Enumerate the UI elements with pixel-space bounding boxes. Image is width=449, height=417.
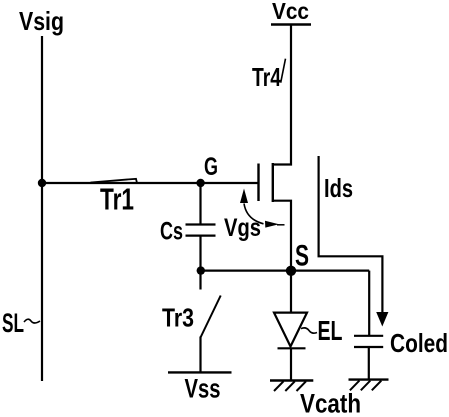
svg-text:Coled: Coled bbox=[390, 328, 448, 358]
arrow Vgs tip line bbox=[277, 224, 285, 226]
wire Ids measurement path bbox=[319, 156, 383, 313]
svg-text:Vgs: Vgs bbox=[224, 214, 261, 242]
wire S row to Coled bbox=[368, 271, 370, 336]
wire Coled bottom to ground bbox=[368, 347, 370, 379]
lead squiggle from SL to line bbox=[24, 319, 40, 323]
node junction at Vsig and gate wire bbox=[38, 179, 46, 187]
ground under Coled bar bbox=[349, 378, 389, 380]
wire G node down to Cs bbox=[199, 183, 201, 224]
ground under Coled hatch 3 bbox=[372, 381, 382, 391]
capacitor Coled bottom plate bbox=[354, 346, 383, 348]
lead line from Tr4 to wire bbox=[281, 59, 286, 83]
node S junction bbox=[286, 266, 296, 276]
svg-text:Tr1: Tr1 bbox=[100, 182, 134, 217]
ground under Coled hatch 2 bbox=[361, 381, 371, 391]
arrowhead Ids down bbox=[376, 312, 388, 327]
svg-text:Vcath: Vcath bbox=[300, 389, 361, 417]
capacitor Cs bottom plate bbox=[186, 235, 216, 237]
wire source lead to S node bbox=[274, 201, 292, 271]
svg-text:EL: EL bbox=[318, 315, 343, 346]
transistor Tr4 gate plate bbox=[257, 164, 259, 202]
capacitor Cs top plate bbox=[186, 223, 216, 225]
svg-text:Ids: Ids bbox=[324, 173, 353, 203]
ground under Coled hatch 1 bbox=[350, 381, 360, 391]
arrowhead Vgs up bbox=[240, 189, 248, 204]
Vcc terminal bar bbox=[271, 23, 311, 25]
ground under EL bar bbox=[270, 379, 313, 381]
arrowhead Vgs right bbox=[265, 221, 279, 228]
svg-text:Vsig: Vsig bbox=[19, 6, 64, 36]
svg-text:Cs: Cs bbox=[160, 218, 183, 246]
wire Cs bottom to junction bbox=[199, 236, 201, 271]
transistor Tr1 switch blade bbox=[91, 179, 138, 183]
node G junction bbox=[196, 179, 204, 187]
wire S down to EL anode bbox=[290, 271, 292, 313]
ground under EL hatch 2 bbox=[285, 381, 295, 391]
transistor Tr4 channel bar bbox=[272, 163, 274, 202]
svg-text:Vss: Vss bbox=[185, 374, 221, 404]
diode EL triangle bbox=[274, 313, 307, 347]
svg-text:SL: SL bbox=[2, 308, 24, 338]
ground under EL hatch 3 bbox=[297, 381, 307, 391]
node junction below Cs bbox=[197, 266, 205, 274]
lead squiggle from EL triangle to label bbox=[301, 328, 317, 333]
Vss terminal bar bbox=[168, 371, 232, 373]
capacitor Coled top plate bbox=[354, 335, 383, 337]
wire gate row horizontal bbox=[42, 182, 259, 184]
wire Vsig vertical line bbox=[41, 36, 43, 381]
svg-text:Tr4: Tr4 bbox=[252, 62, 281, 92]
wire Tr3 down to Vss bbox=[199, 337, 201, 373]
wire S row horizontal bbox=[201, 270, 370, 272]
transistor Tr3 switch blade bbox=[201, 296, 221, 338]
diode EL cathode bar bbox=[278, 347, 306, 349]
svg-text:Vcc: Vcc bbox=[272, 0, 309, 24]
wire Vcc to drain bbox=[274, 25, 292, 165]
wire junction down to Tr3 bbox=[199, 271, 201, 290]
ground under EL hatch 1 bbox=[274, 381, 284, 391]
svg-text:S: S bbox=[295, 240, 309, 273]
arrow Vgs curved bbox=[244, 204, 264, 224]
wire EL cathode to ground bbox=[290, 348, 292, 380]
svg-text:G: G bbox=[204, 153, 218, 181]
svg-text:Tr3: Tr3 bbox=[162, 303, 194, 333]
